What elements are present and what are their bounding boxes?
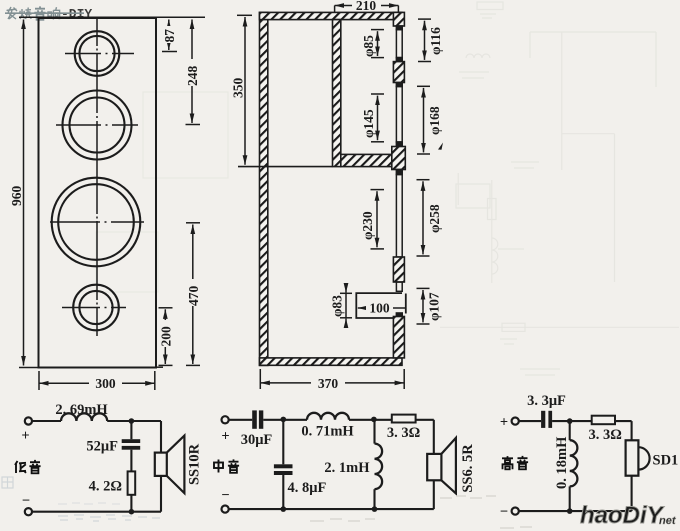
- small leader mark: [438, 143, 443, 150]
- wire bottom: [519, 510, 632, 512]
- resistor R2 3.3ohm: [387, 415, 420, 441]
- node A junction: [129, 418, 135, 424]
- svg-text:3. 3μF: 3. 3μF: [527, 393, 566, 409]
- inductor L4 0.18mH shunt: [554, 421, 577, 511]
- front baffle board outline: [39, 18, 157, 368]
- baffle bottom block: [393, 317, 404, 358]
- svg-text:φ107: φ107: [427, 292, 442, 321]
- baffle rebate tab: [396, 170, 402, 175]
- svg-text:φ83: φ83: [330, 295, 345, 317]
- dimension phi145: [361, 94, 384, 142]
- tweeter cutout circle: [65, 31, 134, 76]
- woofer hole edge: [396, 175, 402, 258]
- tweeter SD1: [626, 440, 679, 475]
- baffle block: [393, 62, 404, 83]
- resistor R3 3.3ohm: [589, 416, 622, 443]
- baffle rebate tab: [396, 58, 402, 62]
- wire shunt upper: [130, 421, 132, 439]
- svg-text:100: 100: [369, 301, 390, 316]
- wire from +: [519, 420, 541, 422]
- svg-text:net: net: [659, 515, 677, 527]
- midrange cutout circle: [56, 91, 138, 160]
- svg-text:φ230: φ230: [360, 211, 375, 240]
- terminal +: [221, 416, 229, 444]
- svg-text:960: 960: [9, 186, 24, 207]
- wire bottom: [229, 508, 434, 510]
- baffle rebate tab: [396, 142, 402, 147]
- svg-text:+: +: [221, 429, 229, 445]
- terminal +: [500, 415, 519, 431]
- dimension 350: [231, 15, 253, 165]
- svg-text:4. 8μF: 4. 8μF: [288, 480, 327, 496]
- svg-text:φ168: φ168: [427, 106, 442, 135]
- bottom wall: [260, 358, 403, 365]
- top wall: [260, 12, 403, 19]
- svg-text:370: 370: [318, 376, 339, 391]
- wire speaker bottom: [433, 480, 435, 509]
- dimension 300: [39, 371, 155, 391]
- wire resistor to speaker: [416, 420, 434, 454]
- wire resistor to tweeter: [615, 421, 632, 440]
- label 高音: [502, 456, 528, 469]
- svg-text:haoDiY: haoDiY: [580, 502, 665, 529]
- dimension 960: [9, 20, 24, 366]
- speaker SS6.5R: [427, 438, 476, 494]
- watermark haoDiY.net: [580, 502, 677, 529]
- dimension phi230: [360, 190, 384, 249]
- svg-text:φ116: φ116: [428, 27, 443, 55]
- node C junction: [281, 417, 287, 423]
- dimension phi83: [330, 285, 353, 326]
- terminal -: [221, 488, 229, 513]
- tweeter hole edge: [396, 30, 402, 58]
- svg-text:φ145: φ145: [361, 109, 376, 138]
- svg-text:0. 71mH: 0. 71mH: [301, 424, 354, 440]
- wire top left: [32, 420, 61, 422]
- port tube: [356, 293, 406, 318]
- label 中音: [214, 459, 239, 472]
- svg-text:−: −: [22, 493, 30, 509]
- node E junction: [281, 506, 287, 512]
- svg-text:470: 470: [186, 286, 201, 307]
- inductor L1 2.69mH: [55, 402, 108, 421]
- baffle rebate tab: [396, 313, 402, 317]
- wire tweeter bottom: [631, 476, 633, 511]
- svg-text:3. 3Ω: 3. 3Ω: [387, 425, 420, 441]
- svg-text:0. 18mH: 0. 18mH: [554, 436, 570, 489]
- svg-text:2. 1mH: 2. 1mH: [324, 460, 370, 476]
- bleed-through text marks: [2, 477, 160, 521]
- node H junction: [567, 508, 573, 514]
- svg-text:SD1: SD1: [653, 453, 679, 469]
- dimension 100: [358, 301, 407, 316]
- svg-text:4. 2Ω: 4. 2Ω: [89, 479, 122, 495]
- svg-text:−: −: [500, 504, 508, 520]
- wire inductor to resistor: [349, 419, 392, 421]
- baffle rebate tab: [396, 83, 402, 87]
- capacitor C3 4.8uF shunt: [274, 420, 327, 509]
- terminal +: [21, 417, 32, 444]
- capacitor C2 30uF: [241, 410, 273, 448]
- wire from +: [229, 419, 253, 421]
- shelf board: [341, 154, 395, 166]
- svg-text:248: 248: [185, 66, 200, 87]
- watermark 发烧音响-DIY: [5, 6, 92, 21]
- top extension line: [19, 16, 205, 18]
- baffle top corner block: [393, 12, 404, 26]
- svg-text:210: 210: [356, 0, 377, 13]
- node D junction: [371, 417, 377, 423]
- port cutout circle: [62, 285, 126, 331]
- node B junction: [129, 509, 135, 515]
- wire cap to resistor: [130, 450, 132, 472]
- svg-text:52μF: 52μF: [86, 439, 118, 455]
- terminal -: [22, 493, 32, 515]
- svg-text:30μF: 30μF: [241, 432, 273, 448]
- wire speaker feed: [160, 421, 162, 512]
- inductor L3 2.1mH shunt: [324, 420, 382, 509]
- wire cap to node: [263, 419, 307, 421]
- svg-text:200: 200: [159, 326, 174, 347]
- midrange hole edge: [396, 87, 402, 143]
- capacitor C4 3.3uF: [527, 393, 566, 428]
- dimension 470: [186, 223, 201, 366]
- wire resistor to bottom: [130, 495, 132, 512]
- label 低音: [15, 460, 41, 473]
- inductor L2 0.71mH: [301, 413, 354, 440]
- svg-text:−: −: [221, 488, 229, 504]
- dimension 87: [162, 20, 177, 52]
- node F junction: [372, 506, 378, 512]
- port hole edge: [396, 282, 402, 291]
- svg-text:300: 300: [95, 376, 116, 391]
- svg-text:3. 3Ω: 3. 3Ω: [589, 427, 622, 443]
- shelf edge projection line: [238, 166, 333, 168]
- wire bottom: [32, 511, 161, 513]
- svg-text:2. 69mH: 2. 69mH: [55, 402, 108, 418]
- dimension phi107: [417, 288, 442, 324]
- dimension 210: [335, 0, 399, 13]
- vertical centerline: [96, 19, 98, 336]
- divider wall: [333, 20, 341, 167]
- bottom extension line left: [19, 366, 163, 368]
- baffle rebate tab: [396, 26, 402, 30]
- baffle shelf corner block: [392, 147, 406, 170]
- dimension phi258: [417, 180, 443, 256]
- terminal -: [500, 504, 519, 520]
- left wall: [260, 12, 268, 365]
- svg-text:SS10R: SS10R: [187, 443, 203, 485]
- dimension 370: [260, 369, 404, 391]
- dimension 248: [185, 20, 200, 125]
- svg-text:φ85: φ85: [361, 35, 376, 57]
- wire cap to node: [552, 420, 592, 422]
- resistor R1 4.2ohm: [89, 471, 136, 494]
- baffle block: [393, 257, 404, 282]
- svg-text:+: +: [21, 428, 29, 444]
- speaker SS10R: [155, 436, 203, 494]
- svg-text:350: 350: [231, 78, 246, 99]
- dimension phi168: [417, 86, 442, 154]
- dimension phi116: [418, 19, 443, 61]
- svg-text:87: 87: [162, 29, 177, 43]
- node G junction: [567, 418, 573, 424]
- svg-text:φ258: φ258: [427, 204, 442, 233]
- svg-text:SS6. 5R: SS6. 5R: [460, 444, 476, 493]
- woofer cutout circle: [50, 178, 144, 267]
- dimension 200: [159, 308, 174, 366]
- dimension phi85: [361, 30, 384, 58]
- capacitor C1 52uF: [86, 439, 140, 455]
- wire top right: [107, 420, 161, 422]
- svg-text:+: +: [500, 415, 508, 431]
